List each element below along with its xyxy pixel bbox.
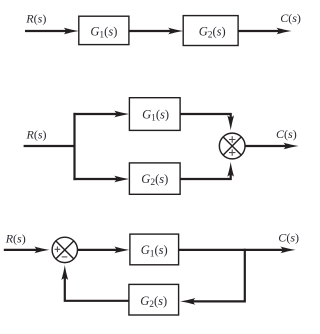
- arrowhead into G2 diagram3: [180, 298, 195, 305]
- svg-text:C(s): C(s): [276, 127, 297, 141]
- wire output diagram2: [245, 145, 290, 147]
- arrowhead up into summer diagram2: [227, 162, 234, 177]
- wire output diagram1: [238, 30, 283, 32]
- arrowhead into G1 diagram1: [64, 28, 79, 35]
- wire branch vertical diagram2: [73, 113, 75, 180]
- summer X cross diagram3: [56, 241, 74, 259]
- svg-text:R(s): R(s): [5, 231, 26, 245]
- arrowhead into G1 diagram3: [114, 247, 129, 254]
- arrowhead up into summer diagram3: [61, 265, 68, 280]
- svg-text:G2(s): G2(s): [199, 24, 226, 40]
- wire bottom branch diagram2: [73, 178, 120, 180]
- arrowhead output diagram2: [283, 143, 298, 150]
- svg-text:G2(s): G2(s): [141, 172, 168, 188]
- svg-text:C(s): C(s): [278, 231, 299, 245]
- svg-text:G1(s): G1(s): [90, 24, 117, 40]
- wire G2 to summer diagram2: [180, 168, 231, 179]
- summer X cross diagram2: [223, 137, 241, 155]
- wire G1 to G2 diagram1: [129, 30, 174, 32]
- wire feedback branch diagram3: [190, 249, 245, 302]
- block G1 diagram2: [129, 98, 180, 131]
- wire G2 to summer diagram3: [65, 272, 129, 301]
- wire summer to G1 diagram3: [78, 249, 122, 251]
- block G2 diagram3: [129, 284, 179, 315]
- svg-text:G2(s): G2(s): [140, 294, 167, 310]
- wire top branch diagram2: [73, 113, 120, 115]
- block G2 diagram2: [129, 163, 180, 194]
- arrowhead down into summer diagram2: [227, 115, 234, 130]
- plus sign top diagram2: [229, 136, 235, 142]
- plus sign left diagram3: [55, 247, 61, 253]
- summing junction circle diagram2: [219, 133, 245, 159]
- plus sign bottom diagram2: [229, 149, 235, 155]
- wire input diagram3: [4, 249, 41, 251]
- svg-text:G1(s): G1(s): [142, 107, 169, 123]
- arrowhead into G2 diagram2: [114, 176, 129, 183]
- wire input diagram1: [25, 30, 70, 32]
- arrowhead output diagram3: [280, 247, 295, 254]
- arrowhead into summer diagram3: [34, 247, 49, 254]
- wire G1 to summer diagram2: [180, 114, 231, 124]
- svg-text:G1(s): G1(s): [141, 243, 168, 259]
- minus sign bottom diagram3: [62, 256, 68, 258]
- arrowhead into G1 diagram2: [114, 111, 129, 118]
- wire input diagram2: [24, 145, 75, 147]
- svg-text:R(s): R(s): [25, 11, 46, 25]
- arrowhead into G2 diagram1: [168, 28, 183, 35]
- svg-text:R(s): R(s): [26, 128, 47, 142]
- svg-text:C(s): C(s): [280, 11, 301, 25]
- wire output diagram3: [179, 249, 287, 251]
- block G1 diagram1: [79, 16, 129, 44]
- block G1 diagram3: [130, 234, 179, 265]
- summing junction circle diagram3: [52, 237, 77, 262]
- block G2 diagram1: [183, 16, 238, 46]
- arrowhead output diagram1: [276, 28, 291, 35]
